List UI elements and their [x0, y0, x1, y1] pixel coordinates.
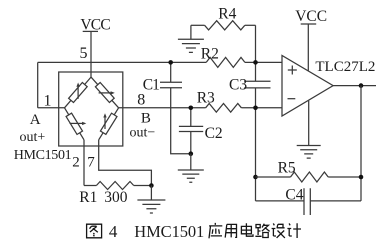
resistor R1 [84, 185, 96, 187]
bridge arm bottom-left [65, 108, 85, 140]
node + input junction [253, 60, 258, 65]
node C2 top junction [189, 106, 194, 111]
caption 计 [287, 223, 301, 238]
capacitor C2 [190, 108, 192, 127]
svg-text:R4: R4 [218, 6, 236, 23]
svg-text:300: 300 [104, 189, 128, 206]
HMC1501 package box [59, 72, 123, 146]
svg-text:out−: out− [130, 125, 156, 140]
wire R2 right to op-amp + input [245, 61, 282, 63]
node output junction [359, 83, 364, 88]
svg-text:VCC: VCC [295, 8, 327, 25]
resistor R5 [256, 176, 291, 178]
bridge arm bottom-right [99, 108, 119, 140]
wire pin 7 lead down and right [99, 140, 152, 186]
svg-text:A: A [30, 112, 41, 128]
wire R4 right down to + input node [255, 25, 257, 81]
caption 电 [241, 223, 253, 236]
node - input junction [253, 106, 258, 111]
node R5 right junction [359, 175, 364, 180]
resistor R2 [206, 57, 245, 67]
caption 应 [209, 223, 222, 238]
wire output down to feedback [360, 86, 362, 201]
wire A entry to bridge left vertex [38, 107, 65, 109]
MR element bottom-left [66, 113, 82, 134]
op-amp U1 TLC27L2 [282, 56, 333, 117]
ground below op-amp [308, 101, 310, 146]
svg-text:C4: C4 [285, 186, 303, 203]
svg-text:B: B [141, 110, 151, 126]
arrow bottom-right [104, 115, 106, 129]
wire VCC right to op-amp top [307, 24, 309, 71]
svg-text:C2: C2 [205, 125, 223, 142]
capacitor C1 [170, 62, 172, 82]
caption 设 [272, 223, 285, 238]
MR element top-left [69, 82, 88, 102]
VCC rail left bar [83, 30, 98, 32]
node C1/C2 bottom junction [189, 151, 194, 156]
node C1 top junction [168, 60, 173, 65]
svg-text:2: 2 [72, 154, 80, 170]
bridge arm top-right [91, 77, 119, 108]
resistor R3 [206, 104, 242, 113]
MR element bottom-right [100, 113, 117, 134]
svg-text:8: 8 [137, 91, 145, 108]
caption figure number 图 4 (hand-drawn CJK) [87, 224, 102, 238]
wire output [333, 85, 376, 87]
ground at R4 left [190, 25, 192, 39]
node R5 left junction [253, 175, 258, 180]
svg-text:R1: R1 [79, 189, 97, 206]
arrow top-right [99, 92, 113, 94]
svg-text:TLC27L2: TLC27L2 [315, 59, 375, 75]
VCC rail right bar [301, 23, 317, 25]
bridge arm top-left [65, 77, 92, 108]
minus sign [288, 98, 296, 100]
svg-text:R2: R2 [201, 45, 219, 62]
svg-text:out+: out+ [20, 130, 46, 145]
ground below R1 [150, 186, 152, 201]
wire pin 2 lead down [83, 140, 85, 186]
svg-text:VCC: VCC [80, 17, 110, 34]
svg-text:R3: R3 [197, 89, 215, 106]
svg-text:HMC1501: HMC1501 [134, 222, 204, 241]
plus sign [288, 66, 297, 75]
capacitor C4 [256, 200, 305, 202]
wire B-node from bridge to R3 [119, 107, 206, 109]
wire left loop vertical [37, 62, 39, 107]
svg-text:R5: R5 [278, 159, 296, 176]
svg-text:1: 1 [44, 93, 52, 110]
wire C3 bottom down through - node to C4 [255, 88, 257, 201]
resistor R4 [191, 24, 205, 26]
wire VCC left to bridge top (pin 5) [90, 31, 92, 77]
MR element top-right [95, 83, 114, 103]
arrow bottom-left [70, 122, 85, 124]
wire R3 right to op-amp - input [241, 107, 282, 109]
arrow top-left [77, 85, 79, 99]
wire top A-node horizontal (out+ loop top) [38, 61, 207, 63]
svg-text:7: 7 [87, 154, 95, 170]
svg-text:4: 4 [109, 222, 118, 241]
svg-text:C3: C3 [229, 77, 247, 94]
caption 用 [225, 224, 236, 237]
svg-text:C1: C1 [143, 77, 159, 94]
caption 路 [255, 224, 269, 238]
svg-text:5: 5 [80, 45, 88, 62]
capacitor C3 [244, 81, 270, 88]
svg-text:HMC1501: HMC1501 [14, 148, 72, 163]
node junction R1/pin7/ground [149, 183, 154, 188]
ground below C2 [190, 154, 192, 170]
